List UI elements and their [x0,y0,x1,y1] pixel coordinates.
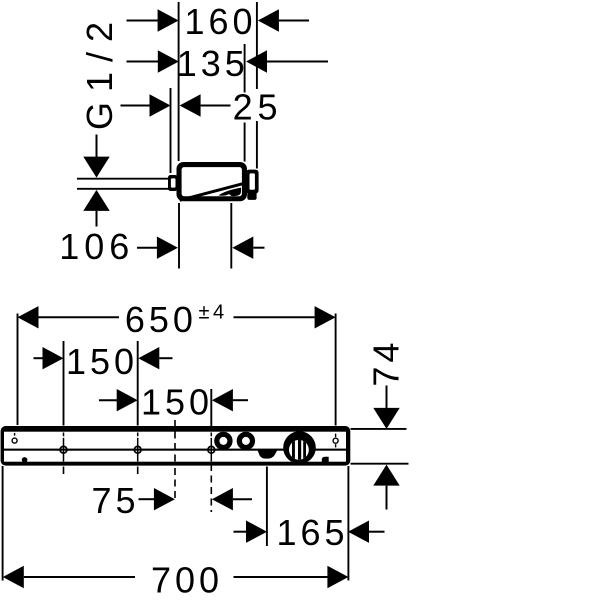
dimension 74 lower leader [386,486,388,510]
bar left pilot hole [12,433,17,443]
dimension 160 right leader [279,20,309,22]
dimension 74 label (rotated) [366,339,407,387]
screw2 dash below bar [137,467,139,475]
temperature knob disk [283,431,316,464]
dimension 700 left arrow [3,566,24,588]
74 reference line bottom [351,463,409,465]
extension line screw1 (x=63.5) [63,341,65,426]
dimension 165 right arrow [348,521,369,543]
extension line below valve left (x=179) [178,203,180,269]
dimension 165 left leader [234,531,247,533]
dimension 106 left leader [137,247,158,249]
svg-text:650: 650 [125,299,197,340]
dimension 150b right leader [233,399,248,401]
svg-text:74: 74 [366,339,407,387]
center dashed line (x=175) [174,420,176,502]
dimension 135 right arrow [246,50,267,72]
valve internal lever blob [219,188,242,197]
bar right pilot hole [333,434,338,448]
dimension 150a right leader [159,357,172,359]
dimension 650 line right segment [234,316,315,318]
extension line 165 left (x=266.9) [266,467,268,547]
dimension 135 label [177,43,249,84]
dimension 700 line right segment [234,576,328,578]
svg-text:150: 150 [141,382,213,423]
supply pipe lower line [77,188,169,190]
dimension 150b label [141,382,213,423]
dimension 650 left arrow [18,306,39,328]
dimension 106 left arrow [157,237,178,259]
dimension 25 label digit 5 [257,87,277,128]
dimension 150b left leader [99,399,117,401]
dimension 165 left arrow [246,521,267,543]
svg-text:G1/2: G1/2 [79,12,120,130]
dimension 700 right arrow [327,566,348,588]
svg-text:135: 135 [177,43,249,84]
extension line screw2 (x=137.7) [137,341,139,426]
dimension 160 right arrow [258,9,279,31]
dimension 74 up arrow [373,465,399,486]
valve left connector tab [168,175,178,191]
spout blob [258,450,278,458]
dimension 25 left leader [121,105,151,107]
dimension 25 right arrow [180,94,201,116]
dimension 165 label [276,512,348,553]
G1/2 pointer lower leader [96,211,98,227]
dimension 135 left arrow [158,50,179,72]
dimension 74 down arrow [373,408,399,429]
dimension 106 right arrow [232,237,253,259]
dimension 75 right leader [233,498,252,500]
dimension 25 label digit 2 [233,87,253,128]
dimension 75 left arrow [154,488,175,510]
dimension 150a label [66,341,138,382]
valve right connector foot [247,192,256,200]
extension line 700/165 right (x=348.4) [347,466,349,581]
dimension 160 label [184,1,256,42]
74 reference line top [351,428,407,430]
dimension 106 right leader [253,247,264,249]
dimension 700 label [151,560,223,601]
dimension 150b left arrow [117,389,138,411]
temperature knob inner face [289,440,309,460]
svg-text:5: 5 [257,87,277,128]
valve internal diagonal [180,183,245,200]
svg-text:±4: ±4 [199,302,228,324]
G1/2 pointer upper leader [96,135,98,158]
svg-text:150: 150 [66,341,138,382]
svg-text:75: 75 [91,480,139,521]
screw crosshair 2 [130,433,146,462]
dimension 75 label [91,480,139,521]
dimension 150a left leader [34,357,44,359]
dimension 650 label [125,299,197,340]
G1/2 pointer up arrow [83,190,109,211]
screw crosshair 1 [56,433,72,462]
dimension 160 left arrow [158,9,179,31]
bar right foot blob [322,457,329,463]
extension line 650 left (x=17.5) [17,314,19,426]
dimension 150b right arrow [212,389,233,411]
dimension 75 left leader [139,498,155,500]
extension line left edge of valve (x=178.6) [178,2,180,161]
extension line 700 left (x=2.6) [2,466,4,581]
dimension 25 left arrow [150,94,171,116]
dimension 165 right leader [369,531,385,533]
extension line 650 right (x=335.6) [335,314,337,426]
screw3 dashed line below [210,464,212,512]
screw1 dash below bar [63,467,65,475]
select button ring 1 [217,434,230,447]
dimension 74 upper leader [386,386,388,409]
svg-text:2: 2 [233,87,253,128]
svg-text:700: 700 [151,560,223,600]
dimension 160 left leader [127,20,159,22]
dimension 135 left leader [127,61,160,63]
label G1/2 (rotated) [79,12,120,130]
bar outline [1,426,351,466]
extension line 135-dim right (x=244.6) [244,44,246,162]
bar left bottom dot [22,457,28,463]
dimension 25 right leader [201,105,231,107]
extension line 160-dim right (x=256.9) [256,2,258,169]
G1/2 pointer down arrow [83,157,109,178]
select button ring 2 [239,434,252,447]
dimension 150a right arrow [138,347,159,369]
supply pipe upper line [77,178,169,180]
dimension 75 right arrow [212,488,233,510]
svg-text:106: 106 [59,226,134,267]
svg-text:160: 160 [184,1,256,42]
dimension 106 label [59,226,134,267]
dimension 650 line left segment [39,316,120,318]
dimension 135 right leader [267,61,328,63]
dimension 700 line left segment [24,576,135,578]
dimension 650 tolerance label [199,302,228,324]
dimension 150a left arrow [43,347,64,369]
extension line 25-dim wall face (x=170.5) [170,88,172,173]
temperature knob grip bars [292,438,306,462]
extension line below valve outlet (x=231.3) [230,203,232,269]
screw crosshair 3 [203,433,219,462]
extension line screw3 upper (x=211.3) [210,389,212,431]
dimension 650 right arrow [315,306,336,328]
valve right connector tab [246,170,259,194]
svg-text:165: 165 [276,512,348,553]
valve body outline [177,162,248,201]
